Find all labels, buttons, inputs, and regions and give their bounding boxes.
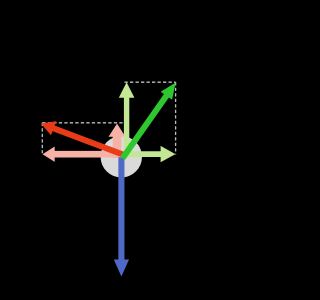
green vector (up-right) (123, 83, 176, 159)
ball (gray circle) (101, 136, 142, 177)
dashed projection line: right edge of green-vector rectangle (175, 82, 177, 154)
dashed projection line: left edge of red-vector rectangle (41, 123, 43, 153)
pink component arrow: vertical (y-component of red vector) (109, 124, 126, 158)
red vector (up-left) (41, 121, 125, 155)
pink component arrow: horizontal (x-component of red vector) (43, 147, 123, 162)
blue vector (downward) (114, 157, 129, 276)
light-green component arrow: vertical (y-component of green vector) (119, 82, 135, 158)
light-green component arrow: horizontal (x-component of green vector) (122, 146, 175, 162)
dashed projection line: top edge of green-vector rectangle (125, 81, 176, 83)
dashed projection line: top edge of red-vector rectangle (42, 122, 123, 124)
